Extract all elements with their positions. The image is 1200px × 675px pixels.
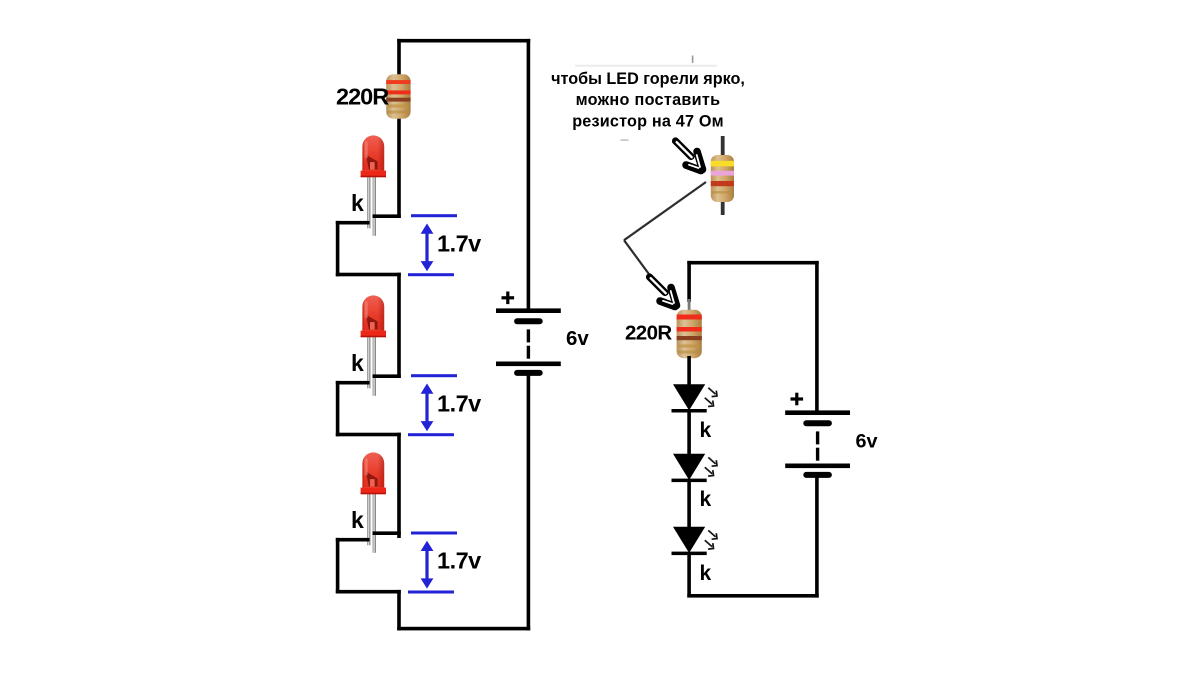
LED symbol D4 (right circuit) — [672, 384, 718, 412]
LED D1 (red LED, left circuit top) — [361, 135, 386, 235]
wire: main vertical down to bottom wire — [397, 590, 401, 631]
wire: D3 cathode horizontal — [336, 538, 370, 542]
wire: main vertical between stage1 and stage2 — [397, 273, 401, 378]
LED symbol D5 (right circuit) — [672, 454, 718, 482]
wire: D2 cathode horizontal — [336, 381, 370, 385]
pointer line from vertex up-right to resistor R3 — [624, 182, 706, 240]
wire: right vertical lower (right circuit) — [815, 477, 819, 597]
wire: step vertical left (stage 2) — [336, 381, 340, 436]
resistor R3 (47 Ohm) body — [711, 155, 734, 202]
LED D2 (red LED, left circuit middle) — [361, 295, 386, 395]
wire: stage 2 bottom horizontal — [336, 433, 401, 437]
resistor R2 220R (right circuit) — [677, 310, 702, 358]
LED D3 (red LED, left circuit bottom) — [361, 452, 386, 552]
wire: below D6 to bottom wire — [687, 553, 691, 598]
wire: between D5 and D6 — [687, 480, 691, 529]
svg-text:чтобы LED горели ярко,: чтобы LED горели ярко, — [551, 70, 745, 88]
wire: right vertical upper (right circuit) — [815, 261, 819, 411]
svg-text:k: k — [351, 350, 364, 376]
svg-text:1.7v: 1.7v — [437, 548, 481, 574]
svg-text:1.7v: 1.7v — [437, 391, 481, 417]
resistor R3 (47 Ohm) lead top — [721, 136, 725, 158]
wire: main vertical between stage2 and stage3 — [397, 433, 401, 538]
resistor R3 (47 Ohm) lead bottom — [721, 200, 725, 215]
pointer arrow to 220R resistor (right circuit) — [650, 277, 679, 309]
wire: stage 3 bottom horizontal — [336, 590, 401, 594]
wire: D3 anode horizontal — [373, 531, 401, 535]
wire: D1 anode horizontal to main vertical — [373, 214, 401, 218]
wire: D1 cathode horizontal going left — [336, 221, 370, 225]
annotation 1.7v (stage 1) — [408, 214, 457, 276]
pointer arrow to 47 Ohm resistor — [676, 141, 705, 173]
wire: below resistor to LED D4 — [687, 356, 691, 386]
svg-text:k: k — [700, 419, 712, 442]
annotation 1.7v (stage 2) — [408, 374, 457, 436]
wire: step vertical left (stage 3) — [336, 538, 340, 593]
wire: top horizontal — [397, 39, 530, 43]
svg-text:6v: 6v — [856, 431, 878, 453]
artifact dash left of small resistor — [621, 139, 629, 141]
svg-text:220R: 220R — [336, 84, 389, 110]
svg-text:k: k — [700, 562, 712, 585]
wire: between D4 and D5 — [687, 410, 691, 456]
wire: top horizontal (right circuit) — [687, 261, 818, 265]
battery BT2 (6v, right circuit) — [785, 410, 850, 478]
svg-text:можно поставить: можно поставить — [576, 91, 721, 109]
wire: step vertical left (stage 1) — [336, 221, 340, 276]
svg-text:220R: 220R — [625, 322, 672, 345]
svg-text:k: k — [700, 488, 712, 511]
wire: left vertical from top to resistor (right circuit) — [687, 261, 691, 302]
resistor R1 220R (left circuit) — [386, 74, 410, 118]
wire: right vertical upper (left circuit) — [527, 39, 531, 309]
wire: D2 anode horizontal — [373, 374, 401, 378]
pointer line from vertex down-right to arrow 2 — [624, 240, 650, 275]
artifact mark above text — [692, 56, 694, 64]
wire: bottom horizontal (right circuit) — [687, 594, 818, 598]
artifact smudge under note text — [575, 65, 717, 67]
wire: right vertical lower (left circuit) — [527, 375, 531, 630]
svg-text:резистор на 47 Ом: резистор на 47 Ом — [572, 112, 724, 130]
battery BT1 (6v, left circuit) — [496, 308, 561, 376]
battery BT1 plus sign — [502, 292, 515, 305]
resistor R2 lead (grey, above body) — [688, 299, 691, 311]
svg-text:k: k — [351, 190, 364, 216]
LED symbol D6 (right circuit) — [672, 527, 718, 555]
annotation 1.7v (stage 3) — [408, 532, 457, 594]
svg-text:6v: 6v — [566, 327, 589, 350]
wire: left vertical from top wire down to LED1 anode level — [397, 39, 401, 218]
wire: bottom horizontal (left circuit) — [397, 627, 530, 631]
wire: stage 1 bottom horizontal — [336, 273, 401, 277]
battery BT2 plus sign — [791, 393, 804, 406]
svg-text:k: k — [351, 507, 364, 533]
svg-text:1.7v: 1.7v — [437, 231, 481, 257]
